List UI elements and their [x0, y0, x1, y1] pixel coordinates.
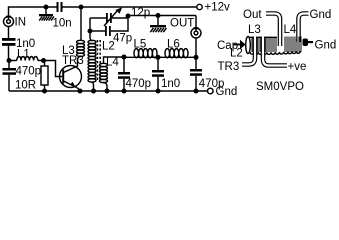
junction dot L2 ground — [91, 89, 96, 94]
terminal +12v — [197, 4, 202, 9]
capacitor 470p filter2 — [190, 57, 202, 91]
svg-text:47p: 47p — [113, 33, 132, 45]
svg-text:L4: L4 — [106, 57, 119, 69]
svg-text:L6: L6 — [167, 39, 180, 51]
junction dot cap3 ground — [194, 89, 199, 94]
capacitor 470p filter1 — [118, 57, 130, 91]
svg-text:L4: L4 — [284, 24, 297, 36]
junction dot ground tap — [44, 5, 49, 10]
wire: ground rail — [9, 90, 208, 92]
svg-text:TR3: TR3 — [62, 55, 84, 67]
inductor L2 winding — [88, 40, 96, 82]
svg-text:1n0: 1n0 — [161, 78, 180, 90]
wire: Out lead ribbon — [266, 14, 280, 47]
svg-text:L1: L1 — [17, 49, 30, 61]
junction dot ground line tap — [156, 13, 161, 18]
junction dot L4 ground — [105, 89, 110, 94]
svg-text:470p: 470p — [126, 78, 152, 90]
svg-text:+ve: +ve — [288, 61, 307, 73]
capacitor C 1n0 input — [2, 27, 16, 61]
inductor L3 winding — [77, 40, 85, 56]
Cap lead arrow — [233, 40, 246, 49]
wire: L2 bottom to ground — [92, 82, 94, 91]
svg-text:TR3: TR3 — [218, 61, 240, 73]
wire: output ground line — [128, 15, 196, 17]
junction dot cap1 ground — [122, 89, 127, 94]
svg-text:470p: 470p — [199, 78, 225, 90]
svg-text:L3: L3 — [248, 24, 261, 36]
capacitor 10n — [57, 2, 63, 12]
capacitor 1n0 filter — [152, 57, 164, 91]
svg-text:IN: IN — [15, 17, 27, 29]
svg-text:Gnd: Gnd — [310, 9, 332, 21]
svg-text:L5: L5 — [134, 39, 147, 51]
junction dot filter node 3 — [194, 55, 199, 60]
svg-text:+12v: +12v — [205, 2, 231, 14]
transistor TR3 — [60, 66, 82, 89]
wire: emitter to ground rail — [78, 88, 81, 91]
inductor L1 — [9, 57, 44, 61]
ground chassis symbol top-left — [39, 7, 54, 21]
wire: TR3 lead ribbon — [242, 37, 255, 65]
winding left flange — [246, 37, 251, 54]
svg-text:SM0VPO: SM0VPO — [256, 81, 304, 93]
junction dot caps to output ground line — [126, 14, 131, 19]
ground chassis symbol output — [150, 16, 166, 33]
sparse over-winding L2 turns — [250, 51, 300, 54]
inductor L4 winding — [100, 63, 108, 82]
junction dot base node right — [41, 58, 46, 63]
capacitor 47p — [90, 16, 128, 36]
resistor 10R — [41, 61, 48, 92]
wire: Gnd top lead ribbon — [299, 14, 309, 43]
svg-text:470p: 470p — [16, 66, 42, 78]
junction dot emitter — [78, 89, 83, 94]
svg-text:L2: L2 — [102, 41, 115, 53]
wire: input shield segment top-left — [9, 7, 57, 17]
svg-text:L2: L2 — [230, 48, 243, 60]
junction dot 10R ground — [42, 89, 47, 94]
junction dot filter node 2 — [156, 55, 161, 60]
wire: rail to L3 top — [80, 7, 82, 41]
svg-text:Out: Out — [243, 9, 262, 21]
wire: +12v rail — [63, 6, 197, 8]
junction dot tank node — [88, 29, 93, 34]
wire: L2 top lead — [90, 31, 92, 41]
transformer core — [98, 40, 101, 82]
junction dot rail to L3 — [79, 5, 84, 10]
svg-text:12p: 12p — [131, 7, 150, 19]
svg-text:Gnd: Gnd — [315, 40, 337, 52]
coil former winding body — [249, 37, 301, 53]
wire: L4 bottom to ground — [104, 82, 108, 91]
winding right flange and Gnd stub — [303, 39, 314, 47]
connector J1 IN — [4, 16, 14, 27]
junction dot cap2 ground — [156, 89, 161, 94]
capacitor 470p base — [3, 61, 17, 92]
junction dot filter node 1 — [122, 55, 127, 60]
wire: to TR3 base — [44, 61, 63, 77]
wire: +ve lead ribbon — [263, 37, 287, 66]
terminal Gnd — [208, 88, 214, 94]
svg-text:10R: 10R — [15, 80, 36, 92]
connector J2 OUT — [191, 16, 201, 58]
inductor L5 — [134, 49, 157, 58]
wire: L3 bottom to TR3 collector — [78, 56, 81, 67]
wire: L4 top to filter — [104, 57, 125, 64]
svg-text:OUT: OUT — [170, 18, 194, 30]
junction dot base node left — [7, 58, 12, 63]
inductor L6 — [165, 49, 188, 58]
wire: trimmer left to tank node — [89, 18, 91, 31]
trimmer capacitor 12p — [90, 7, 128, 26]
wire: filter line — [124, 56, 196, 58]
svg-text:10n: 10n — [53, 18, 72, 30]
